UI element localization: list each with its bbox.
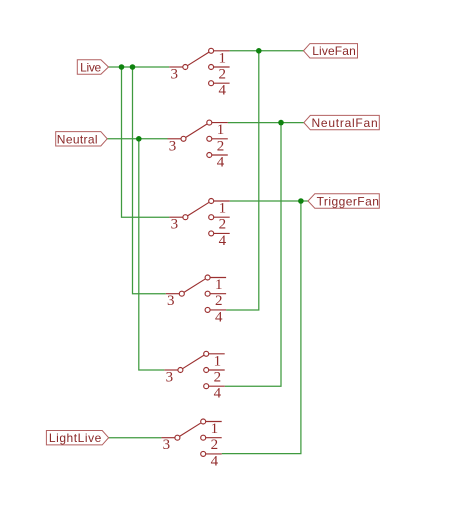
switch SW2 [168,120,228,170]
junction dot D (LiveFan / SW4 pin4 branch) [256,48,262,54]
svg-text:LightLive: LightLive [49,431,102,445]
wire vertical C: Neutral to SW5 pin3 [139,139,165,370]
global label TriggerFan [308,194,379,209]
wire vertical A: Live to SW3 pin3 [122,67,170,217]
global label Live [77,60,108,75]
global label LightLive [46,431,108,446]
svg-text:Neutral: Neutral [57,132,98,146]
wire vertical B: Live to SW4 pin3 [133,67,166,294]
global label LiveFan [304,44,358,59]
wire vertical E: NeutralFan to SW5 pin4 [225,123,281,387]
switch SW3 [169,199,229,249]
wire vertical D: LiveFan to SW4 pin4 [226,51,259,310]
junction dot F (TriggerFan / SW6 pin4 branch) [298,198,304,204]
wire vertical F: TriggerFan to SW6 pin4 [222,201,301,454]
global label Neutral [56,132,107,147]
wire LightLive to SW6 pin3 [109,437,162,439]
wire Live bus [109,66,170,68]
svg-text:Live: Live [80,60,101,74]
switch SW5 [164,351,224,401]
switch SW4 [166,275,226,325]
wire SW2 pin1 to NeutralFan [228,122,304,124]
svg-text:LiveFan: LiveFan [312,44,356,58]
wire SW3 pin1 to TriggerFan [230,200,308,202]
global label NeutralFan [304,115,379,129]
junction dot B (Live / SW4 branch) [130,64,136,70]
svg-text:NeutralFan: NeutralFan [312,116,379,130]
wire Neutral to SW2 pin3 [107,138,167,140]
switch SW6 [161,419,221,469]
junction dot A (Live / SW3 branch) [119,64,125,70]
svg-text:TriggerFan: TriggerFan [317,194,380,208]
wire SW1 pin1 to LiveFan [230,50,304,52]
junction dot E (NeutralFan / SW5 pin4 branch) [278,120,284,126]
switch SW1 [169,48,229,98]
junction dot C (Neutral / SW5 branch) [136,136,142,142]
